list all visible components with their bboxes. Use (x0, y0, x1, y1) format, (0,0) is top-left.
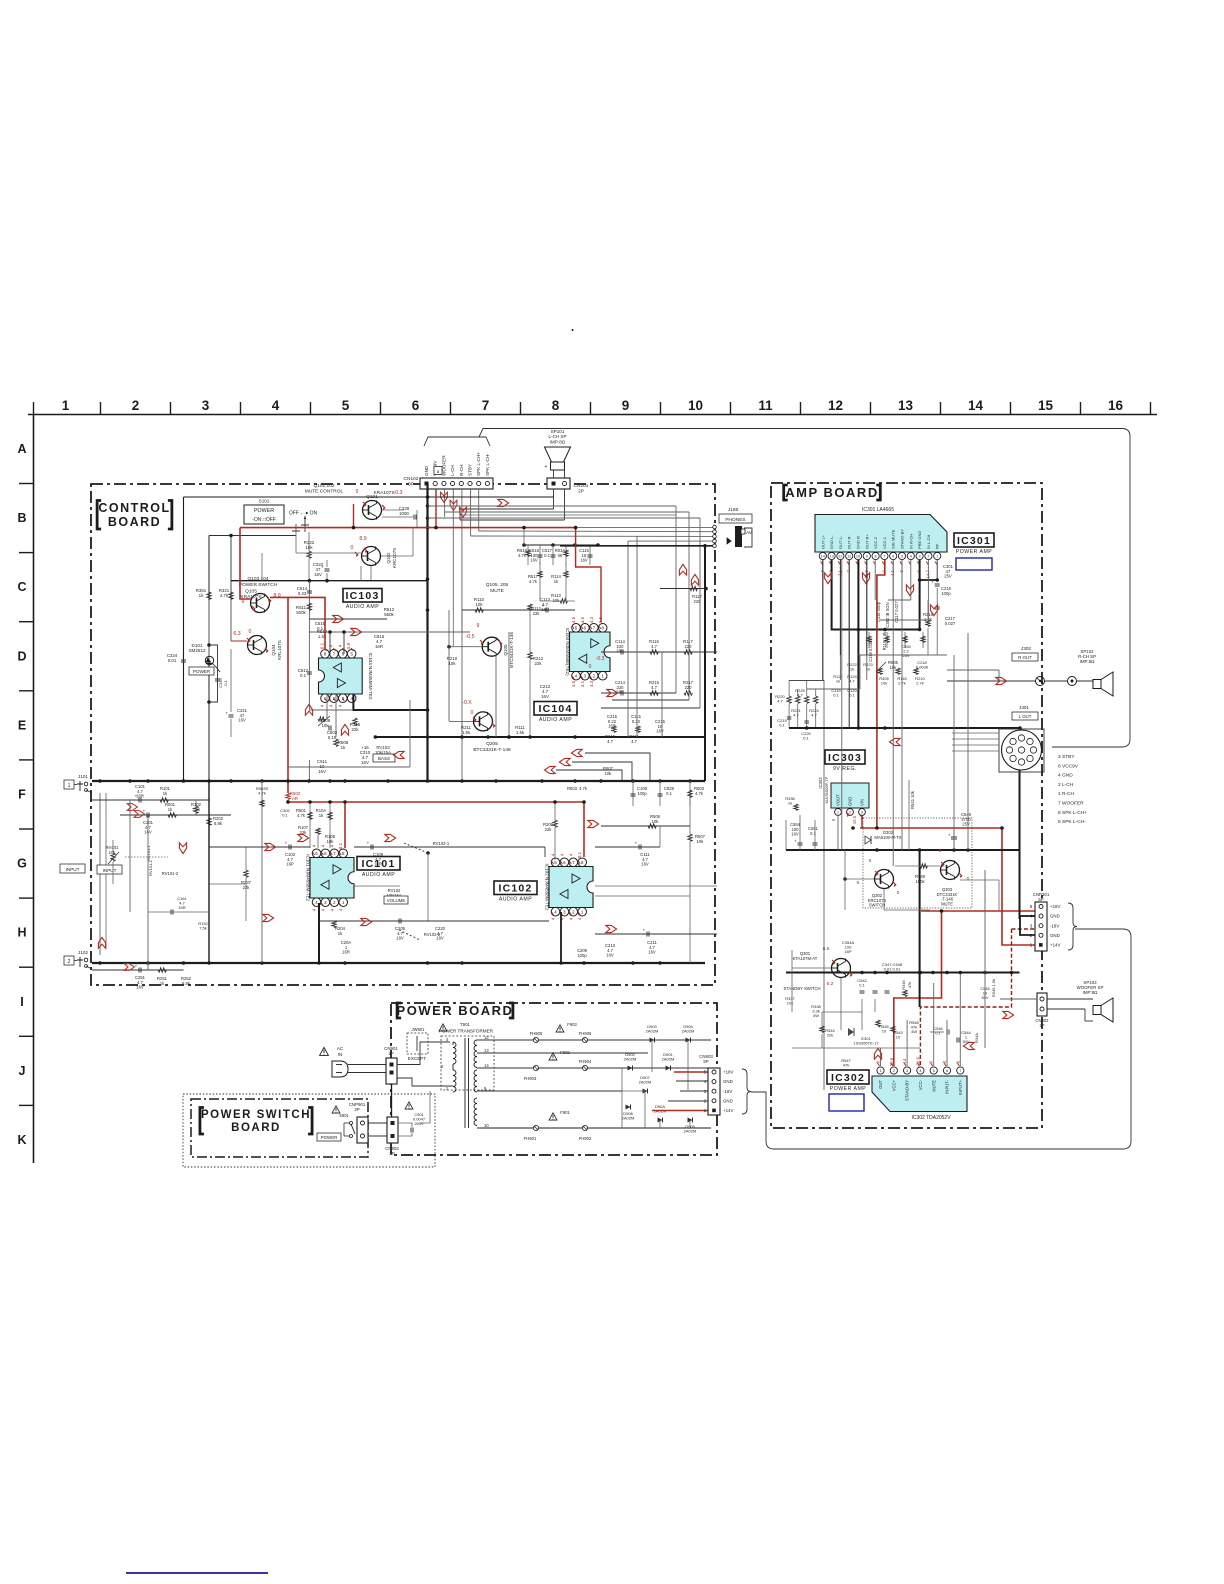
svg-text:0: 0 (939, 848, 942, 854)
svg-text:IC302 TDA2052V: IC302 TDA2052V (911, 1115, 951, 1121)
svg-text:-0.3: -0.3 (596, 656, 605, 662)
svg-text:GND: GND (1050, 933, 1060, 938)
svg-text:13: 13 (898, 398, 914, 413)
svg-text:0.15: 0.15 (328, 735, 337, 740)
svg-text:VOLUME: VOLUME (387, 898, 406, 903)
svg-text:6: 6 (412, 398, 420, 413)
svg-text:VCC-: VCC- (918, 1079, 923, 1090)
svg-text:2A02M: 2A02M (684, 1129, 697, 1134)
svg-text:1: 1 (62, 398, 70, 413)
svg-text:16V: 16V (541, 694, 549, 699)
svg-text:0.33: 0.33 (298, 591, 307, 596)
svg-text:0.1: 0.1 (859, 983, 865, 988)
svg-text:2A02M: 2A02M (662, 1057, 675, 1062)
svg-text:560k: 560k (384, 612, 394, 617)
svg-text:K: K (17, 1133, 26, 1147)
svg-text:5: 5 (901, 555, 903, 559)
svg-text:8.1: 8.1 (577, 851, 582, 858)
svg-text:14: 14 (484, 1063, 489, 1068)
svg-text:4.7: 4.7 (849, 679, 855, 684)
svg-text:16V: 16V (318, 769, 326, 774)
svg-text:4.7k: 4.7k (579, 786, 588, 791)
svg-text:11: 11 (758, 398, 773, 413)
svg-text:S101: S101 (259, 499, 270, 504)
svg-text:Q205: Q205 (486, 741, 498, 747)
svg-text:0.1: 0.1 (282, 813, 288, 818)
svg-text:J102: J102 (78, 950, 88, 955)
svg-text:4 GND: 4 GND (1058, 773, 1073, 779)
svg-text:S901: S901 (339, 1113, 349, 1118)
svg-text:IC302: IC302 (831, 1072, 865, 1084)
svg-text:POWER SWITCH: POWER SWITCH (239, 582, 278, 588)
svg-text:R346 1.5k: R346 1.5k (991, 979, 996, 997)
svg-text:5.8: 5.8 (346, 642, 351, 649)
svg-text:-20.6: -20.6 (915, 1056, 920, 1067)
svg-text:0.1: 0.1 (666, 791, 672, 796)
svg-text:4.7: 4.7 (651, 644, 657, 649)
svg-text:7 WOOFER: 7 WOOFER (1058, 801, 1084, 807)
svg-text:2P: 2P (578, 488, 584, 494)
svg-text:4.1: 4.1 (890, 569, 895, 576)
svg-text:22k: 22k (534, 661, 542, 666)
svg-text:1: 1 (837, 811, 839, 815)
svg-text:I: I (20, 995, 23, 1009)
svg-text:10k: 10k (652, 819, 660, 824)
svg-text:2A02M: 2A02M (682, 1029, 695, 1034)
svg-text:16R: 16R (136, 794, 144, 799)
svg-text:0.01 0.01: 0.01 0.01 (884, 967, 901, 972)
svg-text:4: 4 (272, 398, 280, 413)
svg-text:SM2512: SM2512 (188, 648, 206, 653)
svg-text:8.9: 8.9 (359, 536, 366, 542)
svg-text:1k: 1k (788, 801, 792, 806)
svg-text:0: 0 (351, 545, 354, 551)
svg-text:2P: 2P (388, 1051, 393, 1056)
svg-text:POWER SWITCH: POWER SWITCH (201, 1109, 311, 1121)
svg-text:1k: 1k (199, 593, 204, 598)
svg-text:EXCEPT: EXCEPT (408, 1056, 427, 1061)
svg-text:R541 10k: R541 10k (910, 790, 915, 809)
svg-text:SPK L-CH+: SPK L-CH+ (476, 452, 481, 476)
svg-text:2P: 2P (1039, 1023, 1044, 1028)
svg-text:IMP:8Ω: IMP:8Ω (1083, 990, 1098, 995)
svg-text:8: 8 (552, 398, 560, 413)
svg-text:10: 10 (896, 1035, 901, 1040)
svg-text:KIA78S09P-TF: KIA78S09P-TF (824, 776, 829, 803)
svg-text:+18V: +18V (1050, 904, 1060, 909)
svg-text:1: 1 (879, 1069, 881, 1073)
svg-text:3: 3 (861, 811, 863, 815)
svg-text:13: 13 (829, 555, 833, 559)
svg-text:4.3: 4.3 (589, 616, 594, 623)
svg-text:KRC107S: KRC107S (392, 548, 397, 568)
svg-text:AUDIO AMP: AUDIO AMP (346, 604, 379, 610)
svg-text:13: 13 (484, 1048, 489, 1053)
svg-text:IN L-CH: IN L-CH (926, 534, 931, 549)
svg-text:IMP:8Ω: IMP:8Ω (550, 439, 566, 444)
svg-text:16V: 16V (436, 936, 444, 941)
svg-text:220: 220 (685, 685, 693, 690)
svg-text:AUDIO AMP: AUDIO AMP (362, 872, 395, 878)
svg-text:5 SPK L-CH-: 5 SPK L-CH- (1058, 819, 1086, 825)
svg-text:IC102 NJM4558M-TE2: IC102 NJM4558M-TE2 (545, 864, 550, 911)
svg-text:RV101-1: RV101-1 (148, 859, 153, 875)
svg-text:6.1: 6.1 (320, 642, 325, 649)
svg-text:4.7k: 4.7k (518, 553, 527, 558)
svg-text:CN101: CN101 (574, 483, 589, 489)
svg-text:5P: 5P (1038, 897, 1043, 902)
svg-text:+: + (545, 464, 548, 470)
svg-text:IC303: IC303 (828, 752, 862, 764)
svg-text:J301: J301 (1019, 705, 1029, 710)
svg-text:0: 0 (967, 876, 970, 882)
svg-text:0.1: 0.1 (810, 831, 816, 836)
svg-text:R345: R345 (901, 979, 906, 989)
svg-text:2A02M: 2A02M (646, 1029, 659, 1034)
svg-text:2A02M: 2A02M (624, 1057, 637, 1062)
svg-text:22k: 22k (351, 727, 359, 732)
svg-text:RV101-2: RV101-2 (162, 871, 179, 876)
svg-text:16P: 16P (844, 949, 851, 954)
svg-text:6.2: 6.2 (827, 981, 834, 987)
svg-text:16V: 16V (656, 729, 664, 734)
svg-text:2A02M: 2A02M (639, 1080, 652, 1085)
svg-text:16V: 16V (641, 862, 649, 867)
svg-text:15.6: 15.6 (852, 815, 857, 824)
svg-text:16V: 16V (136, 985, 144, 990)
svg-text:J: J (19, 1064, 26, 1078)
svg-text:100k: 100k (915, 879, 925, 884)
svg-text:9: 9 (242, 599, 245, 605)
svg-text:4.7: 4.7 (651, 685, 657, 690)
svg-text:AUDIO AMP: AUDIO AMP (539, 717, 572, 723)
svg-text:4.5: 4.5 (571, 616, 576, 623)
svg-text:VCC+: VCC+ (891, 1079, 896, 1091)
svg-text:1: 1 (1030, 943, 1033, 948)
svg-text:10k: 10k (321, 723, 329, 728)
svg-text:+: + (794, 839, 797, 844)
svg-text:Q104: Q104 (271, 644, 276, 656)
svg-text:BTC3431K-T-146: BTC3431K-T-146 (473, 747, 511, 753)
svg-text:4.7: 4.7 (797, 693, 803, 698)
svg-text:FH901: FH901 (524, 1136, 537, 1141)
svg-text:E: E (18, 718, 26, 732)
svg-text:250V: 250V (414, 1121, 424, 1126)
svg-text:4.1: 4.1 (580, 680, 585, 687)
svg-text:220: 220 (685, 644, 693, 649)
svg-text:20.6: 20.6 (889, 1057, 894, 1066)
svg-text:POWER AMP: POWER AMP (956, 549, 993, 555)
svg-text:4: 4 (919, 1069, 921, 1073)
svg-text:25V: 25V (944, 574, 952, 579)
svg-text:IC303: IC303 (818, 777, 823, 789)
svg-text:2: 2 (132, 398, 140, 413)
svg-text:+: + (135, 964, 138, 969)
svg-text:SWITCH: SWITCH (869, 903, 886, 908)
svg-text:5: 5 (342, 398, 350, 413)
svg-text:IC301: IC301 (957, 535, 991, 547)
svg-text:R-CH: R-CH (459, 465, 464, 476)
svg-text:16V: 16V (791, 832, 799, 837)
svg-text:G: G (17, 857, 27, 871)
svg-text:PHONES: PHONES (725, 517, 745, 523)
svg-text:10k: 10k (448, 661, 456, 666)
svg-text:1: 1 (68, 783, 71, 789)
svg-text:VCC-1: VCC-1 (882, 536, 887, 549)
svg-text:+: + (285, 841, 288, 846)
svg-text:OUT L-: OUT L- (838, 535, 843, 549)
svg-text:BTC3431K-T-146: BTC3431K-T-146 (509, 632, 514, 668)
svg-text:C117 0.027: C117 0.027 (894, 601, 899, 623)
svg-text:1k: 1k (836, 679, 840, 684)
svg-text:STBY: STBY (468, 464, 473, 476)
svg-text:RV102-1: RV102-1 (433, 841, 450, 846)
svg-text:9: 9 (622, 398, 630, 413)
svg-text:8 SPK L-CH+: 8 SPK L-CH+ (1058, 810, 1087, 816)
svg-text:3 STBY: 3 STBY (1058, 754, 1075, 760)
svg-text:Q102: Q102 (386, 552, 391, 564)
svg-text:10k: 10k (697, 839, 705, 844)
svg-text:BOARD: BOARD (108, 515, 161, 529)
svg-text:16R: 16R (342, 950, 350, 955)
svg-text:CN102: CN102 (404, 476, 419, 482)
svg-text:IC101 NJM4558M-TE2: IC101 NJM4558M-TE2 (306, 854, 311, 901)
svg-text:2A02M: 2A02M (622, 1116, 635, 1121)
svg-text:0.01: 0.01 (168, 658, 177, 663)
svg-text:16V: 16V (314, 572, 322, 577)
svg-text:C116 100p: C116 100p (876, 601, 881, 622)
svg-text:GND: GND (723, 1098, 733, 1103)
svg-text:10k: 10k (475, 602, 483, 607)
svg-text:14: 14 (968, 398, 984, 413)
svg-text:SPK L-CH-: SPK L-CH- (485, 453, 490, 476)
svg-text:1 R-CH: 1 R-CH (1058, 791, 1075, 797)
svg-text:OUT R-: OUT R- (847, 535, 852, 549)
svg-text:4W: 4W (911, 1029, 917, 1034)
svg-text:POWER: POWER (321, 1135, 338, 1140)
svg-text:10k: 10k (881, 681, 887, 686)
svg-text:L OUT: L OUT (1019, 714, 1032, 719)
svg-text:4.7k: 4.7k (297, 813, 306, 818)
svg-text:10: 10 (688, 398, 703, 413)
svg-text:POWER: POWER (193, 669, 211, 674)
svg-text:1: 1 (936, 555, 938, 559)
svg-text:GND: GND (1050, 914, 1060, 919)
svg-text:5: 5 (933, 1069, 935, 1073)
svg-text:16V: 16V (396, 936, 404, 941)
svg-text:16V: 16V (361, 760, 369, 765)
svg-text:0.1: 0.1 (935, 1031, 941, 1036)
svg-text:15: 15 (1038, 398, 1054, 413)
svg-text:14.7: 14.7 (925, 569, 930, 578)
svg-text:Q105, 205: Q105, 205 (486, 582, 509, 588)
svg-text:3: 3 (919, 555, 921, 559)
svg-text:12: 12 (828, 398, 843, 413)
svg-text:R503: R503 (567, 786, 578, 791)
svg-text:2P: 2P (354, 1107, 359, 1112)
svg-text:+14V: +14V (723, 1108, 733, 1113)
svg-text:MUTE: MUTE (490, 588, 504, 594)
svg-text:BASS: BASS (378, 756, 390, 761)
svg-text:F901: F901 (560, 1110, 570, 1115)
svg-text:IN: IN (338, 1052, 343, 1057)
svg-text:+: + (643, 928, 646, 933)
svg-text:4: 4 (910, 555, 912, 559)
svg-text:+: + (321, 565, 324, 570)
svg-text:0.1: 0.1 (300, 673, 307, 678)
svg-text:POWER AMP: POWER AMP (830, 1086, 867, 1092)
svg-text:100p: 100p (941, 591, 951, 596)
svg-text:100p: 100p (637, 791, 647, 796)
svg-text:RV101-1: RV101-1 (146, 844, 151, 860)
svg-text:16R: 16R (374, 862, 382, 867)
svg-text:1k: 1k (850, 667, 854, 672)
svg-text:-0.3: -0.3 (394, 490, 403, 496)
svg-text:RF: RF (935, 543, 940, 549)
svg-text:MA8100-M-TX: MA8100-M-TX (874, 835, 901, 840)
svg-text:12: 12 (484, 1035, 489, 1040)
svg-text:4.7: 4.7 (793, 713, 799, 718)
svg-text:10k: 10k (605, 771, 613, 776)
svg-text:C: C (17, 580, 26, 594)
svg-text:▫ON □OFF: ▫ON □OFF (252, 517, 276, 523)
svg-text:0.027: 0.027 (945, 621, 956, 626)
svg-text:J165: J165 (728, 507, 739, 513)
svg-text:4.7: 4.7 (631, 739, 637, 744)
svg-text:OUT R+: OUT R+ (864, 534, 869, 549)
svg-text:500k: 500k (296, 610, 306, 615)
svg-text:6.5: 6.5 (823, 946, 830, 952)
svg-text:0: 0 (897, 890, 900, 896)
svg-text:4.7k: 4.7k (258, 791, 266, 796)
svg-text:FH903: FH903 (524, 1076, 537, 1081)
svg-text:9V REG.: 9V REG. (833, 766, 857, 772)
svg-text:1k: 1k (866, 667, 870, 672)
svg-text:9: 9 (477, 623, 480, 629)
svg-text:0.1: 0.1 (544, 553, 550, 558)
svg-text:CONTROL: CONTROL (98, 501, 170, 515)
svg-text:6: 6 (946, 1069, 948, 1073)
svg-text:AR: AR (292, 796, 298, 801)
svg-text:MUTE CONTROL: MUTE CONTROL (305, 489, 344, 495)
svg-text:9: 9 (356, 489, 359, 495)
svg-text:GND L-: GND L- (829, 535, 834, 549)
svg-text:+: + (931, 580, 934, 585)
svg-text:0.22: 0.22 (632, 719, 641, 724)
svg-text:C382 IB SGN: C382 IB SGN (885, 602, 890, 627)
svg-text:KTA107M-AT: KTA107M-AT (793, 956, 818, 961)
svg-text:8: 8 (875, 555, 877, 559)
svg-text:+: + (542, 604, 545, 609)
svg-text:10: 10 (882, 1029, 887, 1034)
svg-text:OFF ←● ON: OFF ←● ON (289, 511, 318, 517)
svg-text:0.1: 0.1 (833, 693, 839, 698)
svg-text:16V: 16V (530, 558, 538, 563)
svg-text:H: H (17, 926, 26, 940)
svg-text:3: 3 (906, 1069, 908, 1073)
svg-text:INPUT+: INPUT+ (958, 1079, 963, 1095)
svg-text:STAND-BY: STAND-BY (905, 1080, 910, 1101)
svg-text:4.5: 4.5 (571, 680, 576, 687)
svg-text:Q101,102: Q101,102 (313, 483, 334, 489)
svg-text:11: 11 (847, 555, 851, 559)
svg-text:6: 6 (857, 880, 860, 886)
svg-text:7: 7 (959, 1069, 961, 1073)
svg-text:16R: 16R (178, 905, 185, 910)
svg-text:6 VCC9V: 6 VCC9V (1058, 763, 1079, 769)
svg-text:0: 0 (471, 710, 474, 716)
svg-text:IC103 NJM4558M-TE2: IC103 NJM4558M-TE2 (368, 653, 373, 700)
svg-text:1.5k: 1.5k (462, 730, 471, 735)
svg-text:4.7k: 4.7k (695, 791, 704, 796)
svg-text:FH905: FH905 (530, 1031, 543, 1036)
svg-text:1.5k: 1.5k (516, 730, 525, 735)
svg-text:MUTE: MUTE (941, 901, 953, 906)
svg-text:KRA107S: KRA107S (373, 490, 394, 496)
svg-text:22k: 22k (827, 1033, 833, 1038)
svg-text:INPUT: INPUT (66, 867, 80, 872)
svg-text:6.8k: 6.8k (182, 981, 191, 986)
svg-text:IC104 NJM4558E(TE2): IC104 NJM4558E(TE2) (565, 628, 570, 676)
svg-text:T901: T901 (460, 1022, 471, 1027)
svg-text:IN R-CH: IN R-CH (908, 534, 913, 549)
svg-text:F903: F903 (567, 1022, 577, 1027)
svg-text:4.3: 4.3 (589, 680, 594, 687)
svg-text:VCC-2: VCC-2 (873, 536, 878, 549)
svg-text:2.7k: 2.7k (916, 681, 924, 686)
svg-text:J101: J101 (78, 774, 88, 779)
svg-text:25V: 25V (902, 653, 909, 658)
svg-text:F: F (18, 788, 26, 802)
svg-text:220: 220 (694, 599, 702, 604)
svg-text:IC301 LA4665: IC301 LA4665 (862, 507, 894, 513)
svg-text:9: 9 (866, 555, 868, 559)
svg-text:+: + (367, 841, 370, 846)
svg-text:1SS355TE-17: 1SS355TE-17 (853, 1041, 879, 1046)
svg-text:+: + (948, 833, 951, 838)
svg-text:4.7k: 4.7k (529, 579, 538, 584)
svg-text:JW901: JW901 (411, 1027, 425, 1032)
svg-text:BOARD: BOARD (231, 1122, 281, 1134)
svg-text:MUTE: MUTE (931, 1080, 936, 1092)
svg-text:INPUT-: INPUT- (945, 1079, 950, 1093)
svg-text:16V: 16V (238, 718, 246, 723)
svg-text:IC103: IC103 (345, 590, 379, 602)
svg-text:+14V: +14V (1050, 943, 1060, 948)
svg-text:10: 10 (484, 1123, 489, 1128)
svg-text:J302: J302 (1021, 646, 1031, 651)
svg-text:3: 3 (1030, 923, 1033, 928)
svg-text:2: 2 (849, 811, 851, 815)
svg-text:IC102: IC102 (498, 882, 532, 894)
svg-text:2: 2 (893, 1069, 895, 1073)
svg-text:+18V: +18V (723, 1070, 733, 1075)
svg-text:4.7k: 4.7k (220, 593, 229, 598)
svg-text:Q105: Q105 (503, 644, 508, 656)
svg-text:22k: 22k (243, 885, 251, 890)
svg-text:FH902: FH902 (579, 1136, 592, 1141)
svg-text:0.1: 0.1 (223, 679, 228, 685)
svg-text:2: 2 (68, 959, 71, 965)
svg-text:KRL107S: KRL107S (277, 640, 282, 660)
svg-text:B: B (17, 511, 26, 525)
svg-text:GND R: GND R (856, 536, 861, 549)
svg-text:0.1: 0.1 (849, 693, 855, 698)
svg-text:0.1: 0.1 (779, 723, 785, 728)
svg-text:50V: 50V (962, 1039, 969, 1044)
svg-text:Q105: Q105 (245, 589, 257, 595)
svg-text:OUT: OUT (878, 1080, 883, 1089)
